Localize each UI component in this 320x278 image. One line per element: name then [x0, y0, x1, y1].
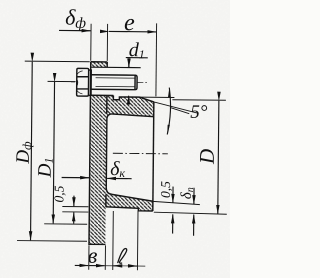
dim v extension lines	[89, 245, 106, 270]
label l	[118, 248, 127, 263]
boss top band hatched	[107, 95, 154, 119]
left 0,5 arrows	[73, 196, 75, 207]
boss top band outline	[106, 95, 154, 194]
dim d1 up arrowhead	[128, 96, 130, 105]
svg-text:e: e	[124, 10, 135, 36]
dim delta-k left arrow	[62, 176, 89, 178]
bolt shaft	[91, 75, 137, 90]
dim D1 top extension	[48, 80, 76, 82]
dim D1 vertical line	[53, 82, 54, 223]
left 0,5 extension lines	[62, 206, 88, 212]
dim l extension lines	[113, 210, 138, 270]
bolt hole top edge	[91, 66, 141, 68]
dim d1 down arrowhead	[128, 59, 130, 68]
dim delta-p arrows	[193, 188, 195, 204]
dim D top extension	[172, 99, 225, 102]
flange web hatched main	[89, 95, 107, 244]
dim e line	[109, 30, 156, 32]
dim v line	[75, 264, 88, 266]
bolt washer	[88, 70, 91, 95]
dim D1 bottom extension	[44, 223, 87, 225]
flange web hatched upper strip	[91, 62, 108, 68]
boss bottom band outline	[106, 194, 153, 211]
bolt hex head	[77, 68, 89, 96]
bolt axis centerline	[71, 81, 147, 84]
5deg angle arc	[167, 88, 170, 135]
dim Df vertical line	[31, 62, 33, 240]
bottom slant extension line	[153, 201, 200, 204]
boss right face	[153, 102, 154, 211]
dim e extension	[155, 23, 158, 96]
dim d1 leader	[126, 58, 148, 68]
dim l line	[113, 265, 119, 267]
dim delta-k right arrow	[107, 177, 131, 179]
dim delta-f arrow	[59, 29, 90, 31]
svg-text:0,5: 0,5	[51, 185, 66, 202]
bolt hole bottom edge	[90, 94, 113, 96]
dim D vertical line	[218, 101, 219, 214]
svg-text:в: в	[88, 243, 98, 268]
right 0,5 arrows	[172, 187, 174, 203]
dim delta-f extension lines	[91, 24, 108, 61]
5deg arc arrowhead top	[168, 88, 170, 97]
bolt head chamfer arcs	[77, 71, 83, 94]
dim Df top extension	[25, 60, 90, 63]
flange outline	[89, 62, 107, 245]
boss bottom band hatched	[106, 188, 153, 211]
5deg leader	[170, 108, 189, 114]
5deg arc arrowhead bottom	[167, 125, 170, 134]
svg-text:5°: 5°	[190, 102, 208, 123]
dim Df bottom extension	[17, 240, 87, 243]
bolt thread lines	[96, 78, 135, 87]
svg-text:0,5: 0,5	[158, 181, 173, 198]
axis centerline	[113, 152, 168, 155]
5deg belt extension line	[139, 96, 174, 98]
svg-text:D: D	[195, 149, 219, 165]
5deg cone extension line	[154, 102, 198, 113]
dim D bottom extension	[154, 212, 227, 214]
